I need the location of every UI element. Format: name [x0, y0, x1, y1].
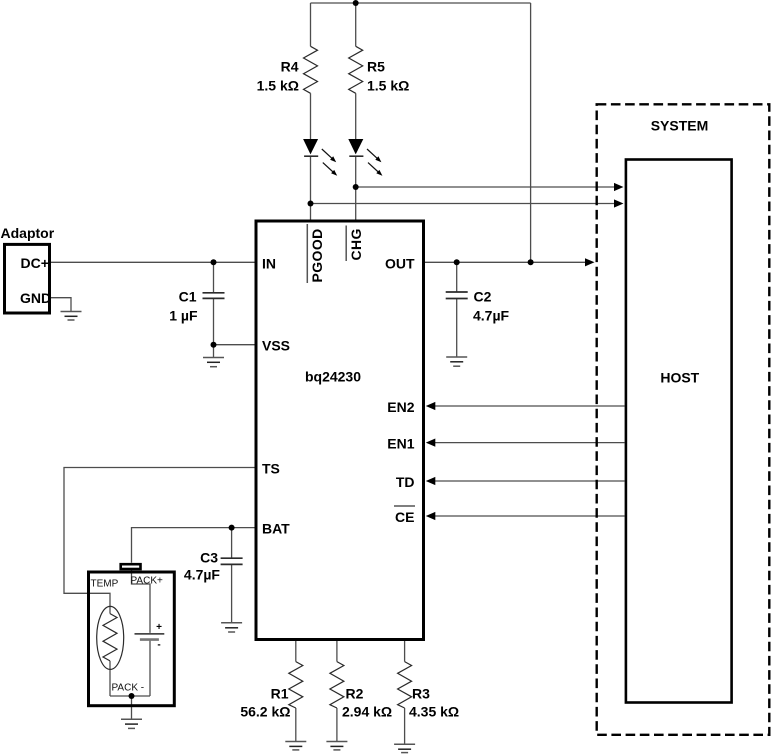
wire TD from HOST — [433, 480, 625, 482]
arrowhead EN2 — [426, 402, 436, 410]
svg-text:1.5 kΩ: 1.5 kΩ — [367, 78, 409, 94]
battery BT1 plates — [135, 634, 165, 640]
arrowhead CHG to HOST — [614, 183, 624, 191]
adaptor box — [5, 244, 50, 313]
wire adaptor GND to ground — [51, 298, 71, 312]
wire R1 top stem — [295, 641, 297, 662]
node PACK- junction — [129, 693, 135, 699]
thermistor zigzag — [103, 614, 117, 661]
node top rail junction — [353, 0, 359, 6]
wire R3 top stem — [404, 641, 406, 662]
ground (C2) — [446, 357, 467, 366]
svg-text:1 µF: 1 µF — [169, 308, 198, 324]
svg-text:CHG: CHG — [348, 228, 364, 260]
wire C1 bottom stem to VSS node — [213, 298, 215, 344]
svg-text:TEMP: TEMP — [91, 579, 119, 590]
arrowhead PGOOD to HOST — [614, 199, 624, 207]
svg-text:R2: R2 — [346, 686, 364, 702]
svg-text:VSS: VSS — [262, 338, 290, 354]
resistor R5 — [349, 46, 363, 93]
wire C3 bottom stem to ground — [231, 564, 233, 622]
svg-text:4.35 kΩ: 4.35 kΩ — [409, 704, 459, 720]
svg-text:EN1: EN1 — [387, 436, 414, 452]
LED D1 (PGOOD) — [303, 139, 337, 176]
wire C3 top stem — [231, 528, 233, 559]
resistor R3 — [398, 662, 412, 708]
node C1 / IN — [211, 259, 217, 265]
node OUT / rail — [528, 259, 534, 265]
wire R5 bottom to LED D2 anode — [355, 93, 357, 139]
battery pack PACK+ tab — [121, 564, 141, 569]
HOST box — [626, 160, 732, 703]
op-amp n/a : IC U1 bq24230 box — [256, 221, 424, 640]
svg-text:R4: R4 — [281, 59, 299, 75]
svg-text:C1: C1 — [179, 289, 197, 305]
wire R1 bottom stem to ground — [295, 708, 297, 742]
svg-text:bq24230: bq24230 — [305, 369, 361, 385]
node CHG wire junction — [353, 184, 359, 190]
capacitor C1 — [203, 293, 225, 299]
svg-text:R1: R1 — [271, 686, 289, 702]
wire LED D2 cathode to CHG pin — [355, 156, 357, 219]
svg-text:1.5 kΩ: 1.5 kΩ — [257, 78, 299, 94]
ground (C1 / VSS) — [203, 358, 224, 367]
svg-text:PGOOD: PGOOD — [309, 228, 325, 282]
capacitor C2 — [446, 292, 468, 299]
capacitor C3 — [221, 558, 243, 564]
wire CHG to HOST — [356, 186, 616, 188]
arrowhead EN1 — [426, 439, 436, 447]
ground (R1) — [285, 742, 306, 750]
wire battery minus down — [149, 640, 151, 696]
wire R3 bottom stem to ground — [404, 708, 406, 744]
SYSTEM dashed box — [597, 104, 770, 735]
svg-text:DC+: DC+ — [21, 255, 49, 271]
resistor R4 — [304, 46, 318, 93]
arrowhead OUT to SYSTEM — [585, 258, 595, 266]
wire C1 top stem — [213, 262, 215, 293]
ground (R2) — [326, 742, 347, 750]
svg-text:PACK+: PACK+ — [131, 576, 163, 587]
svg-text:C2: C2 — [474, 289, 492, 305]
arrowhead CE — [426, 512, 436, 520]
svg-text:4.7µF: 4.7µF — [184, 567, 221, 583]
wire R4 top stem — [310, 3, 312, 46]
wire pack minus horizontal — [110, 695, 150, 697]
wire OUT to SYSTEM — [425, 261, 587, 263]
node OUT / C2 — [454, 259, 460, 265]
wire DC+ to IN — [51, 261, 255, 263]
arrowhead TD — [426, 477, 436, 485]
resistor R1 — [289, 662, 303, 708]
svg-text:R5: R5 — [367, 59, 385, 75]
svg-text:TD: TD — [396, 474, 415, 490]
svg-text:R3: R3 — [412, 686, 430, 702]
svg-text:GND: GND — [20, 290, 51, 306]
battery pack box — [89, 572, 175, 706]
LED D2 (CHG) — [348, 139, 382, 176]
svg-text:IN: IN — [262, 255, 276, 271]
node PGOOD wire junction — [308, 201, 314, 207]
svg-text:4.7µF: 4.7µF — [473, 308, 510, 324]
ground (R3) — [394, 744, 415, 752]
svg-text:SYSTEM: SYSTEM — [651, 118, 709, 134]
wire PGOOD to HOST — [311, 203, 617, 205]
ground (battery pack) — [121, 719, 142, 728]
ground (adaptor GND) — [61, 312, 82, 321]
wire TS to thermistor — [64, 468, 255, 614]
wire R2 top stem — [336, 641, 338, 662]
wire R2 bottom stem to ground — [336, 708, 338, 742]
svg-text:TS: TS — [262, 461, 280, 477]
wire R5 top stem — [355, 3, 357, 46]
wire PACK+ tab to battery plus — [132, 570, 151, 633]
wire right vertical rail to OUT — [530, 3, 532, 262]
svg-text:EN2: EN2 — [387, 399, 414, 415]
wire top rail — [311, 2, 531, 4]
wire VSS node to ground — [213, 345, 215, 358]
thermistor ellipse — [97, 606, 124, 669]
wire thermistor bottom down — [109, 661, 111, 696]
node VSS junction — [211, 342, 217, 348]
svg-text:CE: CE — [395, 509, 414, 525]
svg-text:+: + — [156, 622, 162, 633]
wire R4 bottom to LED D1 anode — [310, 93, 312, 139]
ground (C3) — [221, 623, 242, 632]
svg-text:56.2 kΩ: 56.2 kΩ — [240, 704, 290, 720]
svg-text:-: - — [157, 640, 160, 651]
resistor R2 — [330, 662, 344, 708]
svg-text:HOST: HOST — [660, 369, 699, 385]
svg-text:OUT: OUT — [385, 255, 415, 271]
wire CE from HOST — [433, 515, 625, 517]
svg-text:C3: C3 — [200, 550, 218, 566]
wire EN1 from HOST — [433, 442, 625, 444]
svg-text:Adaptor: Adaptor — [1, 225, 55, 241]
node BAT / C3 — [229, 525, 235, 531]
wire LED D1 cathode to PGOOD pin — [310, 156, 312, 219]
wire BAT to pack tab — [132, 528, 255, 563]
wire pack minus to ground — [131, 696, 133, 719]
wire C2 top stem — [456, 262, 458, 292]
svg-text:BAT: BAT — [262, 521, 290, 537]
svg-text:2.94 kΩ: 2.94 kΩ — [342, 704, 392, 720]
wire C2 bottom stem to ground — [456, 299, 458, 358]
svg-text:PACK -: PACK - — [112, 683, 145, 694]
wire EN2 from HOST — [433, 405, 625, 407]
wire VSS node to VSS pin — [214, 344, 255, 346]
